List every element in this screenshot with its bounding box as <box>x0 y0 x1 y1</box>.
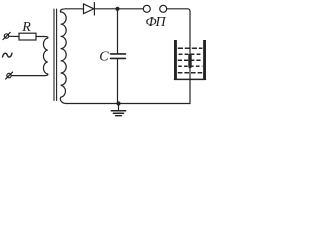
diode D <box>84 4 94 14</box>
svg-text:C: C <box>99 49 109 64</box>
node junction dot <box>115 7 119 11</box>
svg-text:R: R <box>21 20 31 35</box>
terminal input bottom <box>7 73 11 77</box>
wire bottom bus <box>66 103 190 105</box>
contact terminals FP <box>143 5 150 12</box>
wire diode to node <box>94 8 117 10</box>
transformer primary winding <box>43 37 48 76</box>
wire terminal to primary bottom <box>11 75 44 77</box>
node bottom junction dot <box>116 101 120 105</box>
transformer core <box>53 9 55 101</box>
ac source symbol ~ <box>3 53 13 57</box>
capacitor wire lower <box>117 59 119 103</box>
wire resistor to primary <box>36 36 44 38</box>
capacitor C plates <box>111 53 126 55</box>
resistor R <box>19 33 36 40</box>
bath liquid dashes <box>178 47 203 49</box>
wire contact to bath electrode <box>167 9 190 55</box>
svg-text:ФП: ФП <box>145 15 166 30</box>
terminal input top <box>4 34 8 38</box>
electrolytic bath left wall <box>174 40 177 79</box>
ground <box>118 104 120 111</box>
transformer secondary winding <box>60 9 66 104</box>
bath electrode <box>188 56 191 67</box>
wire secondary top to diode <box>66 8 84 10</box>
electrolytic bath right wall <box>203 40 206 79</box>
capacitor wire upper <box>117 9 119 53</box>
wire node to contact <box>118 8 144 10</box>
electrolytic bath bottom <box>175 78 206 80</box>
wire terminal to resistor <box>9 35 19 37</box>
